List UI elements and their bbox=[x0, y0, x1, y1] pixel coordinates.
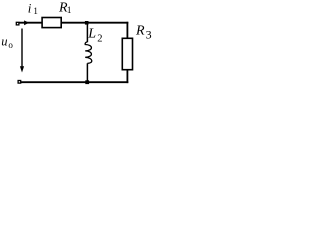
inductor L2 (coil) bbox=[85, 42, 92, 63]
terminal top-left (input +) bbox=[16, 22, 19, 25]
svg-text:3: 3 bbox=[146, 28, 152, 42]
wire top: R1 to node A bbox=[62, 22, 88, 24]
svg-text:u: u bbox=[1, 34, 7, 48]
wire bottom: node B to right corner bbox=[87, 81, 128, 83]
wire top: node A to right corner bbox=[88, 22, 129, 24]
svg-text:L: L bbox=[87, 27, 96, 42]
svg-text:R: R bbox=[135, 24, 145, 39]
resistor R1 bbox=[42, 18, 61, 28]
svg-text:2: 2 bbox=[97, 33, 102, 44]
wire top: terminal to R1 bbox=[19, 22, 42, 24]
wire right branch lower (R3 to bottom corner) bbox=[126, 70, 128, 83]
svg-text:o: o bbox=[8, 40, 13, 50]
svg-text:1: 1 bbox=[33, 6, 38, 16]
wire L2 branch lower bbox=[86, 63, 88, 83]
current arrow i1 bbox=[24, 20, 29, 25]
wire bottom: terminal to node B bbox=[21, 81, 87, 83]
wire L2 branch upper bbox=[86, 22, 88, 42]
node A (junction dot, top of L2) bbox=[85, 21, 89, 25]
svg-text:1: 1 bbox=[67, 6, 72, 16]
node B (junction dot, bottom of L2) bbox=[85, 80, 89, 84]
voltage arrow uo (line) bbox=[21, 29, 23, 69]
wire right branch upper (corner down to R3) bbox=[126, 22, 128, 39]
resistor R3 bbox=[122, 38, 132, 69]
terminal bottom-left (output -) bbox=[18, 81, 21, 84]
voltage arrow uo (head) bbox=[20, 66, 24, 72]
svg-text:i: i bbox=[28, 0, 32, 15]
